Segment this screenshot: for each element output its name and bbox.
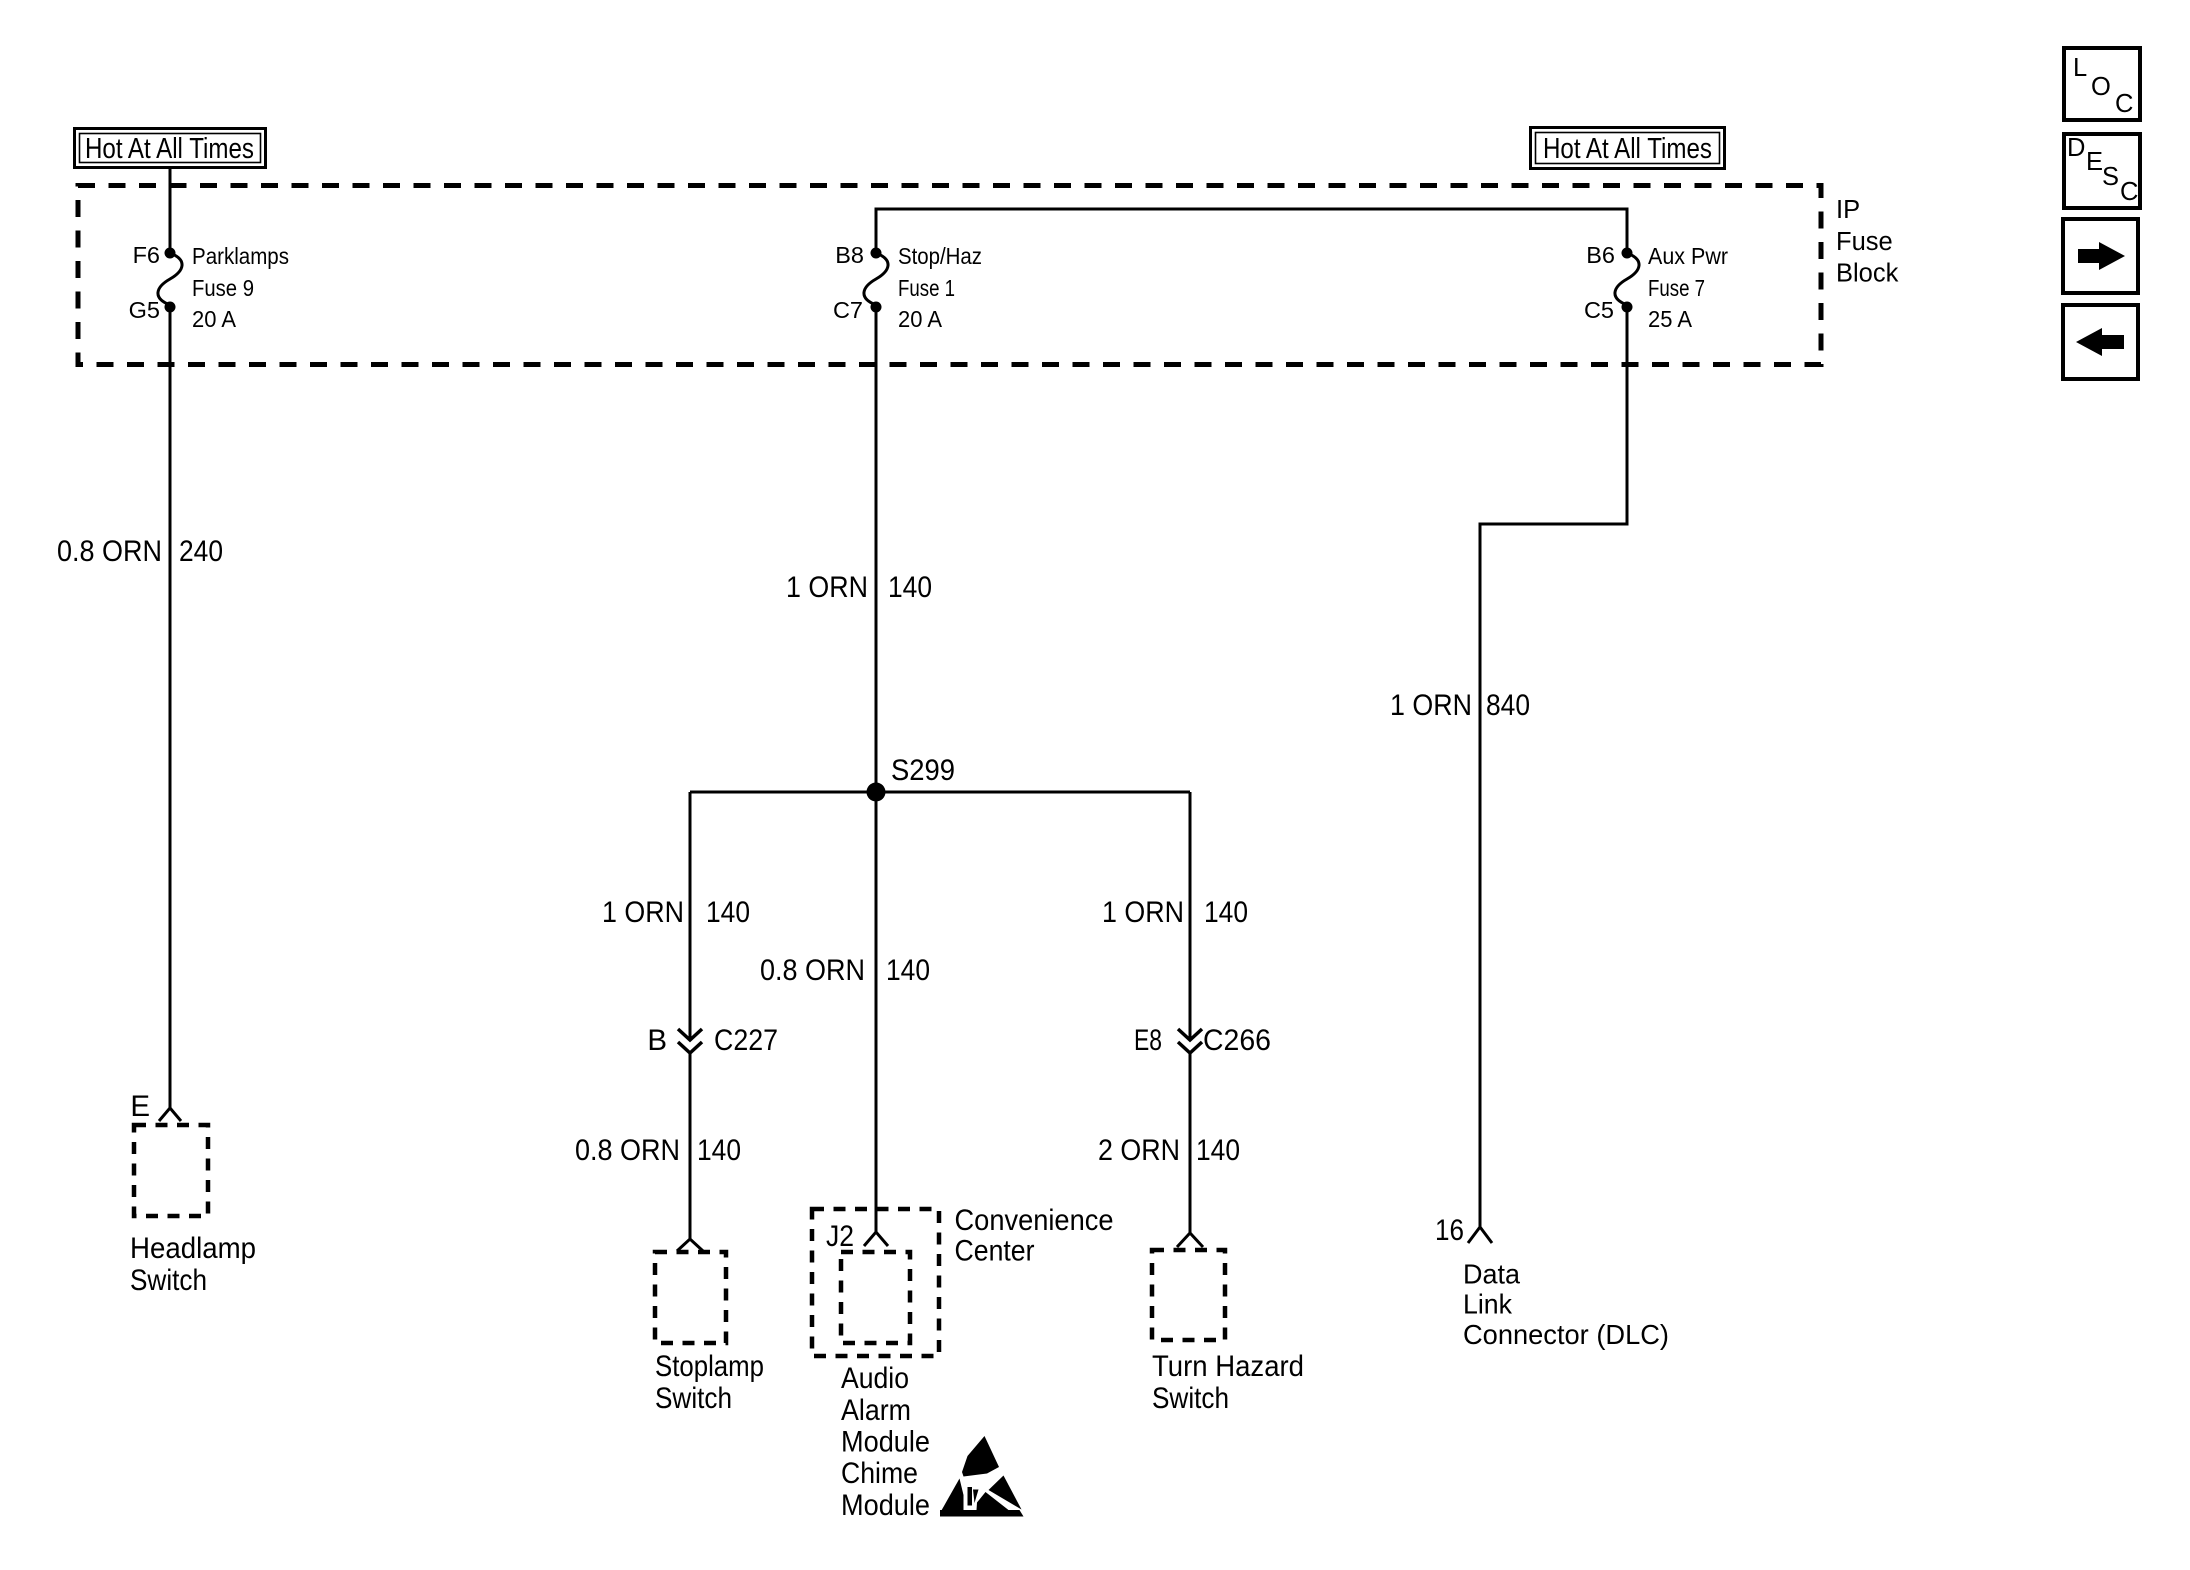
svg-text:20 A: 20 A [898, 306, 942, 332]
svg-text:Audio: Audio [841, 1362, 909, 1395]
svg-text:B: B [647, 1024, 667, 1057]
svg-text:Hot At All Times: Hot At All Times [1543, 133, 1712, 165]
svg-text:140: 140 [886, 954, 930, 987]
svg-text:C: C [2120, 178, 2138, 206]
svg-text:240: 240 [179, 535, 223, 568]
svg-text:Connector (DLC): Connector (DLC) [1463, 1319, 1669, 1350]
svg-text:Switch: Switch [130, 1264, 207, 1297]
svg-text:Link: Link [1463, 1289, 1512, 1320]
svg-text:140: 140 [706, 896, 750, 929]
svg-text:Headlamp: Headlamp [130, 1232, 256, 1265]
svg-text:C227: C227 [714, 1024, 778, 1057]
svg-text:Module: Module [841, 1426, 930, 1459]
svg-text:1 ORN: 1 ORN [1102, 896, 1184, 929]
svg-text:Turn Hazard: Turn Hazard [1152, 1350, 1304, 1383]
svg-text:F6: F6 [133, 242, 160, 268]
svg-text:25 A: 25 A [1648, 306, 1692, 332]
svg-text:Fuse 9: Fuse 9 [192, 275, 254, 301]
svg-text:B6: B6 [1586, 242, 1615, 268]
svg-text:Center: Center [955, 1235, 1035, 1268]
svg-text:16: 16 [1435, 1214, 1464, 1247]
svg-text:C266: C266 [1203, 1024, 1271, 1057]
svg-text:1 ORN: 1 ORN [1390, 689, 1472, 722]
svg-text:Fuse 1: Fuse 1 [898, 275, 955, 301]
svg-text:E8: E8 [1134, 1024, 1162, 1057]
svg-text:1 ORN: 1 ORN [786, 571, 868, 604]
svg-text:1 ORN: 1 ORN [602, 896, 684, 929]
svg-text:Fuse: Fuse [1836, 228, 1893, 256]
svg-text:B8: B8 [835, 242, 864, 268]
svg-text:Stoplamp: Stoplamp [655, 1350, 764, 1383]
svg-text:G5: G5 [129, 297, 160, 323]
svg-text:D: D [2067, 134, 2085, 162]
svg-text:140: 140 [888, 571, 932, 604]
svg-text:S299: S299 [891, 754, 955, 787]
svg-text:0.8 ORN: 0.8 ORN [760, 954, 865, 987]
svg-text:0.8 ORN: 0.8 ORN [575, 1134, 680, 1167]
svg-text:140: 140 [697, 1134, 741, 1167]
svg-text:E: E [2086, 148, 2103, 176]
svg-text:140: 140 [1204, 896, 1248, 929]
svg-text:Hot At All Times: Hot At All Times [85, 133, 254, 165]
svg-text:Aux Pwr: Aux Pwr [1648, 243, 1728, 269]
svg-text:Switch: Switch [655, 1382, 732, 1415]
svg-text:E: E [130, 1090, 150, 1123]
svg-text:Alarm: Alarm [841, 1394, 911, 1427]
svg-text:Switch: Switch [1152, 1382, 1229, 1415]
svg-text:Module: Module [841, 1489, 930, 1522]
svg-text:J2: J2 [826, 1220, 854, 1253]
svg-text:Data: Data [1463, 1259, 1521, 1290]
svg-text:S: S [2102, 163, 2119, 191]
svg-text:O: O [2091, 73, 2111, 101]
svg-text:C: C [2115, 90, 2133, 118]
svg-text:Fuse 7: Fuse 7 [1648, 275, 1705, 301]
svg-text:Stop/Haz: Stop/Haz [898, 243, 982, 269]
svg-text:Chime: Chime [841, 1457, 918, 1490]
svg-text:Convenience: Convenience [955, 1204, 1114, 1237]
svg-text:Parklamps: Parklamps [192, 243, 289, 269]
svg-text:140: 140 [1196, 1134, 1240, 1167]
svg-text:C5: C5 [1584, 297, 1614, 323]
svg-text:Block: Block [1836, 260, 1899, 288]
svg-text:2 ORN: 2 ORN [1098, 1134, 1180, 1167]
svg-text:840: 840 [1486, 689, 1530, 722]
svg-text:0.8 ORN: 0.8 ORN [57, 535, 162, 568]
svg-text:IP: IP [1836, 196, 1860, 224]
svg-text:20 A: 20 A [192, 306, 236, 332]
svg-text:L: L [2073, 54, 2087, 82]
svg-text:C7: C7 [833, 297, 863, 323]
